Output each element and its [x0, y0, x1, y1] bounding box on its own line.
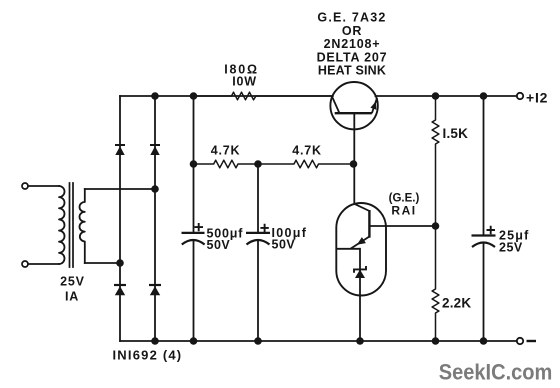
svg-text:2N2108+: 2N2108+	[324, 37, 381, 51]
resistor R4 1.5K	[432, 96, 439, 226]
wire top rail left of Q1	[120, 95, 333, 97]
svg-text:SeekIC.com: SeekIC.com	[439, 360, 553, 385]
capacitor C2 100uf plate	[246, 232, 270, 234]
transformer T1 primary lead top	[28, 185, 59, 187]
terminal output minus	[517, 338, 523, 344]
transistor Q1 emitter chord	[372, 98, 377, 113]
resistor R2 4.7K (left)	[194, 160, 259, 168]
node dot RA1 collector	[432, 222, 440, 230]
wire bottom rail	[120, 340, 517, 342]
node dot bottom rail 100uf	[254, 337, 262, 345]
node dot bottom rail 25uf	[480, 337, 488, 345]
wire Q1 base down to RA1	[353, 113, 355, 204]
transformer T1 core	[70, 183, 74, 267]
wire secondary top lead to node B	[85, 188, 155, 190]
diode D1 upper column A	[115, 144, 125, 146]
capacitor C1 plus sign	[195, 223, 204, 231]
capacitor C2 plus sign	[260, 224, 268, 232]
zener diode D5 triangle	[355, 270, 365, 279]
svg-text:2.2K: 2.2K	[442, 296, 471, 311]
node dot top rail B	[151, 92, 159, 100]
transformer T1 secondary winding	[80, 189, 85, 263]
wire bridge column B	[154, 96, 156, 341]
wire 100uf column lower	[257, 241, 259, 342]
terminal output +12	[517, 93, 523, 99]
transistor Q2 emitter slant	[351, 237, 370, 249]
node dot top rail 1.5K	[432, 92, 440, 100]
transistor Q2 base bar	[368, 210, 370, 238]
wire 25uf column lower	[483, 243, 485, 341]
transformer T1 primary winding	[59, 186, 65, 264]
wire top rail right of Q1	[375, 95, 516, 97]
svg-text:RAI: RAI	[391, 204, 416, 218]
transistor Q1 base bar	[335, 112, 372, 114]
wire secondary bottom lead to node A	[85, 262, 120, 264]
node dot bottom rail bus	[190, 337, 198, 345]
capacitor C1 500uf curved plate	[182, 240, 205, 245]
capacitor C3 25uf curved plate	[472, 243, 495, 248]
zener diode D5 bar	[354, 266, 366, 273]
svg-text:+I2: +I2	[526, 90, 548, 106]
diode D3 lower column A	[114, 284, 126, 286]
transistor Q1 emitter arrow	[370, 101, 376, 110]
svg-text:4.7K: 4.7K	[211, 144, 241, 158]
svg-text:50V: 50V	[272, 238, 296, 252]
capacitor C2 100uf curved plate	[247, 240, 270, 245]
node dot bottom rail B	[151, 337, 159, 345]
wire 25uf column upper	[483, 96, 485, 236]
wire RA1 collector to 1.5K/2.2K node	[369, 225, 435, 227]
diode D4 lower column B	[149, 284, 161, 286]
transformer T1 primary lead bottom	[28, 263, 59, 265]
svg-text:HEAT SINK: HEAT SINK	[318, 64, 386, 78]
node dot bottom rail RA1	[356, 337, 364, 345]
regulator U1 RA1 oval outline	[336, 203, 386, 296]
node dot 4.7K row base	[350, 160, 358, 168]
resistor R5 2.2K	[432, 226, 439, 341]
wire bridge column A	[119, 96, 121, 341]
transistor Q2 collector slant	[354, 204, 369, 211]
capacitor C3 25uf plate	[472, 234, 496, 236]
wire Q2 emitter horizontal	[337, 248, 361, 250]
svg-text:G.E. 7A32: G.E. 7A32	[317, 11, 386, 25]
capacitor C3 plus sign	[487, 226, 496, 235]
resistor R1 180ohm 10W	[194, 92, 333, 100]
svg-text:DELTA 207: DELTA 207	[317, 50, 388, 64]
svg-text:I.5K: I.5K	[443, 126, 469, 141]
node dot top rail bus	[190, 92, 198, 100]
svg-text:INI692 (4): INI692 (4)	[113, 348, 183, 363]
svg-text:IA: IA	[65, 290, 79, 304]
node dot 4.7K row 100uf	[254, 160, 262, 168]
wire 100uf column upper	[257, 164, 259, 233]
wire main bus lower (500uf cap to bottom rail)	[193, 241, 195, 342]
node dot secondary top	[151, 185, 159, 193]
terminal input top	[22, 183, 28, 189]
wire RA1 zener branch down to bottom rail	[359, 249, 361, 341]
svg-text:I0W: I0W	[232, 75, 257, 89]
resistor R3 4.7K (right)	[258, 160, 354, 168]
wire main bus upper (rail to 500uf cap)	[193, 96, 195, 233]
capacitor C1 500uf plate	[182, 232, 205, 234]
svg-text:25V: 25V	[499, 241, 523, 255]
transistor Q2 emitter arrow	[357, 237, 366, 245]
node dot 4.7K row bus	[190, 160, 198, 168]
transistor Q1 collector chord	[332, 96, 340, 113]
node dot secondary bottom	[116, 259, 124, 267]
svg-text:OR: OR	[342, 24, 362, 38]
transistor Q1 circle	[330, 82, 377, 129]
node dot top rail 25uf	[480, 92, 488, 100]
node dot bottom rail 2.2K	[432, 337, 440, 345]
minus sign	[527, 340, 537, 342]
svg-text:25V: 25V	[60, 275, 85, 289]
diode D2 upper column B	[150, 144, 160, 146]
svg-text:4.7K: 4.7K	[292, 144, 322, 158]
svg-text:50V: 50V	[207, 238, 231, 252]
terminal input bottom	[22, 261, 28, 267]
